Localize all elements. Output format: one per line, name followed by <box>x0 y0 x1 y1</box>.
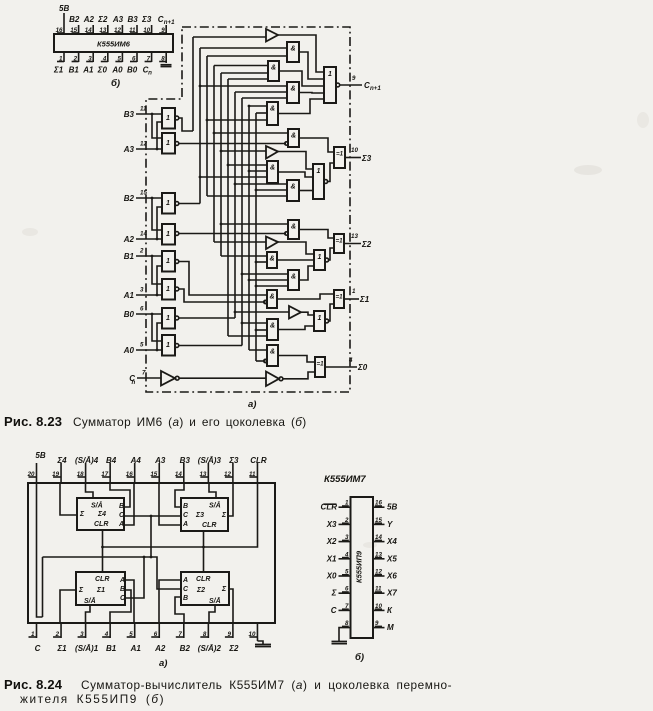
svg-text:Σ: Σ <box>221 586 227 593</box>
svg-text:Σ1: Σ1 <box>53 66 64 75</box>
buffer T3 <box>266 237 278 250</box>
svg-text:n+1: n+1 <box>164 19 175 26</box>
svg-text:1: 1 <box>318 315 322 322</box>
pin 6 (Σ) left IP9 <box>331 586 351 598</box>
wires sum2 group <box>277 230 361 281</box>
svg-text:А0: А0 <box>111 66 123 75</box>
svg-text:Σ0: Σ0 <box>97 66 108 75</box>
OR gate OR4 <box>314 311 329 331</box>
pin 7 (Cn) <box>143 52 153 77</box>
svg-text:1: 1 <box>317 168 321 175</box>
AND gate A12 <box>267 319 278 340</box>
svg-text:=1: =1 <box>336 151 344 158</box>
inverter В1 input gate <box>124 248 179 272</box>
svg-text:Σ: Σ <box>79 511 85 518</box>
svg-text:В1: В1 <box>69 66 80 75</box>
svg-text:Х3: Х3 <box>326 520 337 529</box>
svg-text:&: & <box>291 274 296 281</box>
svg-text:А: А <box>182 521 188 528</box>
pin 9 (М) right IP9 <box>373 620 394 632</box>
dash-dot functional border of fig 8.23 a <box>146 27 350 392</box>
inverter on Cn line <box>266 372 283 387</box>
svg-text:S/Ā: S/Ā <box>84 597 96 605</box>
svg-text:S/Ā: S/Ā <box>91 502 103 510</box>
svg-text:Y: Y <box>387 520 393 529</box>
pin 9 (Σ2) bottom fig 8.24a <box>225 623 239 653</box>
svg-text:&: & <box>270 349 275 356</box>
svg-text:А2: А2 <box>83 15 95 24</box>
AND gate A10 <box>288 270 299 290</box>
svg-text:C: C <box>35 644 41 653</box>
svg-text:C: C <box>183 586 189 593</box>
svg-text:К555ИП9: К555ИП9 <box>355 550 364 583</box>
pin 14 (А2) <box>83 15 95 34</box>
svg-text:1: 1 <box>166 231 170 238</box>
pin 9 (Cn1) <box>158 15 175 34</box>
svg-text:б): б) <box>111 78 120 89</box>
XOR gate X0 <box>315 357 325 377</box>
svg-text:10: 10 <box>351 147 358 154</box>
svg-text:12: 12 <box>140 141 147 148</box>
svg-text:А1: А1 <box>130 644 142 653</box>
carry chain wire <box>43 515 182 617</box>
svg-text:&: & <box>270 106 275 113</box>
pin 18 ((S/Ā)4) top fig 8.24a <box>75 456 99 483</box>
wires sum1 group <box>277 294 359 330</box>
svg-text:&: & <box>269 294 274 301</box>
pin 16 (А4) top fig 8.24a <box>126 456 142 483</box>
svg-text:В1: В1 <box>106 644 117 653</box>
svg-text:5: 5 <box>140 342 144 349</box>
svg-text:=1: =1 <box>335 238 343 245</box>
svg-text:Σ2: Σ2 <box>196 587 205 594</box>
svg-text:(S/Ā)2: (S/Ā)2 <box>198 644 222 653</box>
svg-text:А1: А1 <box>82 66 94 75</box>
pin 2 (Σ1) bottom fig 8.24a <box>53 623 67 653</box>
svg-text:S/Ā: S/Ā <box>209 597 221 605</box>
wire pin17 to Σ4 B <box>110 483 130 507</box>
svg-text:В: В <box>183 595 188 602</box>
IC K555IM6 pinout body (fig 8.23 b) <box>54 34 173 52</box>
svg-text:В2: В2 <box>124 194 135 203</box>
pin 2 (В1) <box>69 52 80 75</box>
XOR gate X2 <box>334 234 344 253</box>
svg-text:5В: 5В <box>59 4 69 13</box>
wire pin18 to Σ4 S/A <box>86 483 94 498</box>
svg-text:n: n <box>148 70 152 77</box>
XOR gate X1 <box>334 290 344 308</box>
svg-text:4: 4 <box>348 357 353 364</box>
wire cross-links B/A pairs <box>151 113 162 352</box>
pin 15 (А3) top fig 8.24a <box>150 456 166 483</box>
svg-text:В2: В2 <box>69 15 80 24</box>
svg-text:=1: =1 <box>335 294 343 301</box>
svg-text:а): а) <box>248 399 256 410</box>
pin 10 (GND) bottom fig 8.24a <box>249 623 258 638</box>
output Σ1 pin 1 <box>352 288 370 304</box>
svg-text:А3: А3 <box>112 15 124 24</box>
svg-text:А: А <box>119 577 125 584</box>
wires AND/buffer outputs to OR1 <box>278 35 324 114</box>
pin 4 (В1) bottom fig 8.24a <box>102 623 117 653</box>
AND gate A6 <box>267 161 278 183</box>
svg-text:В2: В2 <box>180 644 191 653</box>
svg-text:Σ3: Σ3 <box>141 15 152 24</box>
svg-text:C: C <box>183 512 189 519</box>
svg-text:(S/Ā)3: (S/Ā)3 <box>198 456 222 465</box>
svg-text:К555ИМ6: К555ИМ6 <box>97 40 131 49</box>
wire pin7 to Σ2 B <box>175 597 184 623</box>
pin 11 (Х7) right IP9 <box>373 586 397 598</box>
svg-text:В3: В3 <box>124 110 135 119</box>
svg-text:Рис. 8.23: Рис. 8.23 <box>4 414 62 429</box>
output Σ0 pin 4 <box>348 357 368 372</box>
pin 7 (В2) bottom fig 8.24a <box>176 623 191 653</box>
XOR gate X3 <box>334 147 345 168</box>
pin 3 (А1) <box>82 52 94 75</box>
pin 15 (В2) <box>69 15 80 34</box>
wire pin8 to Σ2 S/A <box>209 605 215 623</box>
svg-text:1: 1 <box>166 200 170 207</box>
pin 12 (Х6) right IP9 <box>373 569 397 581</box>
IC K555IP9 vertical body <box>351 497 374 638</box>
pin 5 (Х0) left IP9 <box>326 569 351 581</box>
wire OR1 out to Cn+1 <box>340 75 382 92</box>
pin 4 (Х1) left IP9 <box>326 551 351 563</box>
svg-text:Σ2: Σ2 <box>361 240 372 249</box>
wire pin15 to Σ3 A <box>159 483 181 525</box>
wire pin16 to Σ4 A <box>124 483 134 525</box>
svg-text:В: В <box>119 503 124 510</box>
wires sum3 group <box>278 138 361 191</box>
inverter В2 input gate <box>124 190 179 214</box>
buffer T2 <box>266 146 278 159</box>
pin 11 (В3) <box>128 15 139 34</box>
pin 6 (В0) <box>127 52 138 75</box>
svg-text:5В: 5В <box>35 451 45 460</box>
pin 16 (5В) right IP9 <box>373 500 397 512</box>
svg-text:Х2: Х2 <box>326 537 337 546</box>
svg-text:S/Ā: S/Ā <box>209 502 221 510</box>
svg-text:15: 15 <box>140 190 147 197</box>
horizontal bus tap wires <box>193 37 289 361</box>
svg-text:&: & <box>269 256 274 263</box>
svg-text:CLR: CLR <box>95 576 109 583</box>
svg-text:1: 1 <box>166 140 170 147</box>
wire pin3 to Σ1 S/A <box>86 605 91 623</box>
wire pin14 to Σ3 B <box>175 483 184 507</box>
svg-text:Х6: Х6 <box>386 572 397 581</box>
svg-text:CLR: CLR <box>94 521 108 528</box>
pin 7 (C) left IP9 <box>331 603 351 615</box>
pin 12 (Σ3) top fig 8.24a <box>224 456 239 483</box>
IC K555IM7 package outline (fig 8.24 a) <box>28 483 275 623</box>
wires sum0 group <box>278 356 357 379</box>
pin 2 (Х3) left IP9 <box>326 517 351 529</box>
buffer T4 <box>289 306 301 319</box>
wire pin2 to Σ1 output <box>60 590 76 623</box>
svg-text:К555ИМ7: К555ИМ7 <box>324 474 366 485</box>
svg-text:А0: А0 <box>123 346 135 355</box>
wire pin1 C carry input <box>143 556 146 559</box>
OR gate OR2 <box>313 164 328 199</box>
pin 14 (В3) top fig 8.24a <box>175 456 191 483</box>
pin 17 (В4) top fig 8.24a <box>101 456 117 483</box>
svg-text:n+1: n+1 <box>370 85 381 92</box>
svg-text:&: & <box>290 86 295 93</box>
svg-text:В4: В4 <box>106 456 117 465</box>
svg-text:В0: В0 <box>124 310 135 319</box>
svg-text:Σ1: Σ1 <box>96 587 105 594</box>
svg-text:б): б) <box>355 652 364 663</box>
AND gate A11 <box>264 290 277 308</box>
AND gate A8 <box>285 220 299 239</box>
svg-text:&: & <box>290 46 295 53</box>
svg-text:Σ4: Σ4 <box>97 511 106 518</box>
AND gate A2 <box>268 61 279 81</box>
wires inverter outputs to bus <box>179 118 286 346</box>
svg-text:1: 1 <box>352 288 356 295</box>
AND gate A1 <box>287 42 299 62</box>
AND gate A3 <box>287 82 299 103</box>
pin 8 (GND) left IP9 <box>339 620 351 641</box>
ground IP9 pin 8 <box>332 642 348 644</box>
pin 10 (Σ3) <box>141 15 152 34</box>
svg-text:1: 1 <box>328 71 332 78</box>
svg-text:В0: В0 <box>127 66 138 75</box>
wire pin4 to Σ1 B <box>110 590 131 623</box>
pin 15 (Y) right IP9 <box>373 517 393 529</box>
svg-text:А1: А1 <box>123 291 135 300</box>
wire pin9 to Σ2 output <box>229 589 233 623</box>
svg-text:Σ3: Σ3 <box>195 512 204 519</box>
wire pin6 to Σ2 A <box>159 580 181 623</box>
wire Σ1 C hook <box>125 557 144 598</box>
svg-text:1: 1 <box>166 342 170 349</box>
svg-text:=1: =1 <box>316 361 324 368</box>
wire pin12 to Σ3 output <box>228 483 233 516</box>
svg-text:13: 13 <box>351 233 358 240</box>
buffer Cn input <box>129 370 266 387</box>
svg-text:а): а) <box>159 658 167 669</box>
svg-text:М: М <box>387 623 394 632</box>
svg-text:CLR: CLR <box>196 576 210 583</box>
pin 5 (А1) bottom fig 8.24a <box>127 623 142 653</box>
pin 19 (Σ4) top fig 8.24a <box>52 456 67 483</box>
adder block Σ4 <box>77 498 125 530</box>
svg-text:&: & <box>290 184 295 191</box>
wire pin5 to Σ1 A <box>125 580 134 623</box>
pin 13 (Х5) right IP9 <box>373 551 397 563</box>
OR gate OR3 <box>314 250 329 270</box>
wire pin13 to Σ3 S/A <box>209 483 216 498</box>
svg-text:А2: А2 <box>123 235 135 244</box>
svg-text:Σ1: Σ1 <box>359 295 370 304</box>
svg-text:К: К <box>387 606 393 615</box>
vertical wire bus <box>193 37 256 361</box>
pin 5 (А0) <box>111 52 123 75</box>
svg-text:Х5: Х5 <box>386 554 397 563</box>
svg-text:&: & <box>291 133 296 140</box>
svg-text:Х7: Х7 <box>386 589 397 598</box>
AND gate A4 <box>267 102 278 125</box>
OR gate OR1 <box>324 67 340 103</box>
output Σ3 pin 10 <box>351 147 372 163</box>
pin 10 (К) right IP9 <box>373 603 393 615</box>
inverter А2 input gate <box>123 224 179 245</box>
pin 1 (C) bottom fig 8.24a <box>29 623 41 653</box>
svg-text:В: В <box>120 586 125 593</box>
pin 4 (Σ0) <box>97 52 108 75</box>
caption fig 8.23 <box>4 414 307 429</box>
svg-text:CLR: CLR <box>202 522 216 529</box>
adder block Σ2 <box>181 572 229 605</box>
svg-text:Х0: Х0 <box>326 572 337 581</box>
ground pin 10 fig 8.24a <box>255 638 271 647</box>
svg-text:В3: В3 <box>180 456 191 465</box>
svg-text:Сумматор-вычислитель К555ИМ7 (: Сумматор-вычислитель К555ИМ7 (а) и цокол… <box>81 678 452 692</box>
pin 16 (5В) <box>56 4 70 34</box>
svg-text:2: 2 <box>139 248 144 255</box>
output Σ2 pin 13 <box>351 233 372 249</box>
inverter В0 input gate <box>124 306 179 329</box>
svg-text:Σ: Σ <box>78 587 84 594</box>
pin 1 (Σ1) <box>53 52 64 75</box>
svg-text:Сумматор ИМ6 (а) и его цоколев: Сумматор ИМ6 (а) и его цоколевка (б) <box>73 415 307 429</box>
svg-text:А: А <box>182 577 188 584</box>
svg-text:3: 3 <box>140 287 144 294</box>
svg-text:1: 1 <box>166 315 170 322</box>
svg-text:(S/Ā)4: (S/Ā)4 <box>75 456 99 465</box>
svg-text:1: 1 <box>166 286 170 293</box>
svg-text:Σ: Σ <box>331 589 337 598</box>
inverter А0 input gate <box>123 335 179 356</box>
svg-text:Σ0: Σ0 <box>357 363 368 372</box>
buffer T1 <box>266 29 278 42</box>
svg-text:А3: А3 <box>123 145 135 154</box>
svg-text:Рис. 8.24: Рис. 8.24 <box>4 677 63 692</box>
AND gate A7 <box>287 180 299 201</box>
pin 3 ((S/Ā)1) bottom fig 8.24a <box>75 623 99 653</box>
svg-text:Х1: Х1 <box>326 554 337 563</box>
inverter В3 input gate <box>124 106 179 129</box>
svg-text:А2: А2 <box>154 644 166 653</box>
svg-text:n: n <box>132 379 136 386</box>
svg-text:Σ2: Σ2 <box>97 15 108 24</box>
AND gate A5 <box>285 129 299 147</box>
adder block Σ1 <box>76 572 126 605</box>
inverter А1 input gate <box>123 279 179 300</box>
svg-text:14: 14 <box>140 231 147 238</box>
svg-text:Σ1: Σ1 <box>56 644 67 653</box>
svg-text:1: 1 <box>318 254 322 261</box>
svg-text:Х4: Х4 <box>386 537 397 546</box>
wire pin19 to Σ4 output <box>60 483 77 515</box>
pin 11 (CLR) top fig 8.24a <box>249 456 267 483</box>
svg-text:Σ: Σ <box>221 512 227 519</box>
svg-text:А3: А3 <box>154 456 166 465</box>
svg-text:Σ3: Σ3 <box>228 456 239 465</box>
svg-text:9: 9 <box>352 75 356 82</box>
pin 12 (А3) <box>112 15 124 34</box>
pin 13 (Σ2) <box>97 15 108 34</box>
svg-text:Σ4: Σ4 <box>56 456 67 465</box>
pin 13 ((S/Ā)3) top fig 8.24a <box>198 456 222 483</box>
svg-text:1: 1 <box>166 258 170 265</box>
svg-text:жителя К555ИП9 (б): жителя К555ИП9 (б) <box>20 692 165 706</box>
adder block Σ3 <box>181 498 228 531</box>
svg-text:&: & <box>271 65 276 72</box>
svg-text:7: 7 <box>142 370 146 377</box>
svg-text:5В: 5В <box>387 503 397 512</box>
pin 8 (GND) <box>159 52 166 63</box>
pin 3 (Х2) left IP9 <box>326 534 351 546</box>
svg-text:(S/Ā)1: (S/Ā)1 <box>75 644 99 653</box>
pin 8 ((S/Ā)2) bottom fig 8.24a <box>198 623 222 653</box>
svg-text:1: 1 <box>166 115 170 122</box>
inverter А3 input gate <box>123 133 179 154</box>
svg-text:11: 11 <box>140 106 147 113</box>
svg-text:C: C <box>331 606 337 615</box>
wire pin20 power rail <box>37 483 43 617</box>
svg-text:&: & <box>291 224 296 231</box>
svg-text:В1: В1 <box>124 252 135 261</box>
svg-text:6: 6 <box>140 306 144 313</box>
pin 6 (А2) bottom fig 8.24a <box>151 623 166 653</box>
svg-text:&: & <box>270 165 275 172</box>
pin 20 (5В) top fig 8.24a <box>27 451 46 483</box>
svg-text:А: А <box>118 521 124 528</box>
svg-text:В3: В3 <box>128 15 139 24</box>
ground (fig 8.23 b, pin 8) <box>161 65 172 67</box>
AND gate A13 <box>264 345 278 366</box>
svg-text:Σ3: Σ3 <box>361 154 372 163</box>
pin 1 (CLR) left IP9 <box>321 500 351 512</box>
pin 14 (Х4) right IP9 <box>373 534 397 546</box>
caption fig 8.24 <box>4 677 452 706</box>
svg-text:В: В <box>183 503 188 510</box>
AND gate A9 <box>267 252 277 268</box>
svg-text:А4: А4 <box>130 456 142 465</box>
svg-text:&: & <box>270 323 275 330</box>
svg-text:CLR: CLR <box>250 456 267 465</box>
svg-text:Σ2: Σ2 <box>228 644 239 653</box>
wire pin11 CLR net <box>101 483 257 572</box>
